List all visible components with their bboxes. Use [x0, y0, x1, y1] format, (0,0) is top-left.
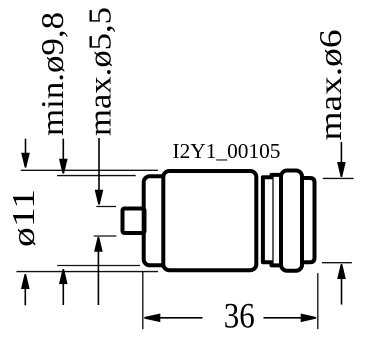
dim max o5.5 bottom arrow: [95, 237, 102, 305]
extension line nub top: [96, 206, 116, 208]
dim max o6 top arrow: [338, 142, 345, 177]
svg-text:ø11: ø11: [5, 189, 41, 247]
dim max o6 bottom arrow: [338, 264, 345, 304]
dim 36 right arrow: [264, 315, 317, 322]
stepped neck washer: [263, 175, 281, 266]
rear end cap: [300, 178, 315, 262]
dim max o5.5 top arrow: [96, 138, 103, 205]
dim o11 bottom arrow: [22, 274, 29, 305]
extension line body bottom: [16, 271, 158, 273]
main cylindrical body: [163, 171, 256, 270]
neck step contour line: [272, 176, 274, 264]
extension line length left: [142, 272, 144, 329]
svg-text:I2Y1_00105: I2Y1_00105: [173, 139, 281, 163]
extension line flange bottom: [57, 265, 140, 267]
front flange collar: [144, 176, 168, 265]
fuse tip contact (nub): [123, 209, 145, 234]
extension line nub bottom: [94, 235, 117, 237]
svg-text:min.ø9,8: min.ø9,8: [34, 12, 70, 136]
svg-text:36: 36: [224, 295, 255, 335]
dim min o9.8 top arrow: [60, 139, 67, 174]
extension line length right: [317, 273, 319, 329]
dim 36 left arrow: [145, 315, 203, 322]
dim min o9.8 bottom arrow: [60, 269, 67, 305]
extension line cap top right: [323, 177, 354, 179]
svg-text:max.ø6: max.ø6: [312, 30, 348, 141]
svg-text:max.ø5,5: max.ø5,5: [82, 7, 118, 136]
extension line body top: [21, 169, 158, 171]
rear collar ring: [281, 171, 302, 271]
extension line flange top: [57, 175, 136, 177]
extension line cap bottom right: [322, 262, 352, 264]
dim o11 top arrow: [22, 139, 29, 168]
